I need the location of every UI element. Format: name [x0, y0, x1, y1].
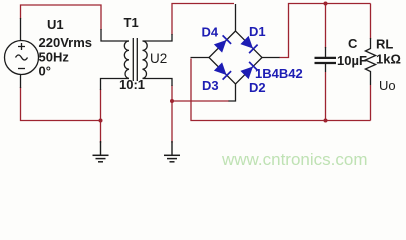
wire: junction to bridge AC bottom [172, 100, 229, 102]
wire: capacitor top lead [325, 4, 327, 49]
diode D2 (AC bottom to plus) [240, 62, 257, 79]
diode D4 (minus to AC top) [214, 35, 231, 52]
ground (primary side) [93, 141, 109, 162]
junction at capacitor top on DC rail [324, 2, 328, 6]
wire: primary bottom down to ground junction [100, 89, 102, 143]
svg-text:D4: D4 [202, 25, 219, 40]
svg-text:1B4B42: 1B4B42 [255, 66, 303, 81]
wire: resistor bottom lead [370, 85, 372, 121]
svg-text:U2: U2 [150, 51, 167, 66]
svg-text:10:1: 10:1 [119, 77, 145, 92]
secondary bottom stub [143, 79, 173, 87]
svg-text:C: C [348, 36, 358, 51]
wire: resistor top lead [370, 4, 372, 40]
svg-text:50Hz: 50Hz [39, 50, 70, 65]
wire: capacitor bottom lead [325, 72, 327, 121]
wire: source bottom to bottom-left rail [21, 87, 101, 121]
svg-text:RL: RL [376, 36, 393, 51]
svg-text:D2: D2 [249, 80, 266, 95]
primary top stub [101, 29, 129, 41]
wire: bridge plus (right vertex) up to top DC rail [279, 4, 371, 58]
minus sign [18, 68, 25, 70]
sine wave [16, 55, 28, 60]
svg-text:10µF: 10µF [337, 53, 367, 68]
plus sign [18, 43, 25, 50]
svg-text:www.cntronics.com: www.cntronics.com [221, 150, 367, 169]
capacitor C [315, 47, 337, 72]
diode D1 (AC top to plus) [240, 36, 257, 53]
bridge rectifier 1B4B42 diamond [191, 4, 280, 101]
svg-text:U1: U1 [47, 17, 64, 32]
svg-text:Uo: Uo [379, 78, 396, 93]
svg-text:T1: T1 [124, 15, 139, 30]
ground (secondary side) [164, 141, 180, 162]
secondary top stub [143, 34, 173, 41]
core lines [133, 38, 137, 81]
secondary coil [143, 41, 148, 79]
stubs [235, 4, 237, 31]
wire: bridge minus (left vertex) to bottom DC rail [191, 59, 371, 121]
junction at primary-bottom / source / ground [99, 119, 103, 123]
diode D3 (minus to AC bottom) [214, 62, 231, 79]
junction at capacitor bottom on DC rail [324, 119, 328, 123]
AC source U1 [5, 18, 39, 88]
wire: source top to primary top rail [21, 5, 102, 30]
svg-text:220Vrms: 220Vrms [39, 35, 93, 50]
svg-text:1kΩ: 1kΩ [376, 51, 401, 66]
svg-text:0°: 0° [39, 64, 51, 79]
wire: secondary top riser to bridge AC top rail [172, 4, 234, 36]
svg-text:D3: D3 [202, 78, 219, 93]
transformer T1 [101, 29, 173, 90]
svg-text:D1: D1 [249, 24, 266, 39]
primary coil [124, 41, 129, 79]
resistor RL zigzag [365, 38, 375, 85]
junction at secondary-bottom / bridge / ground [170, 99, 174, 103]
wire: secondary bottom down to junction and ground [171, 85, 173, 143]
primary bottom stub [101, 79, 130, 91]
